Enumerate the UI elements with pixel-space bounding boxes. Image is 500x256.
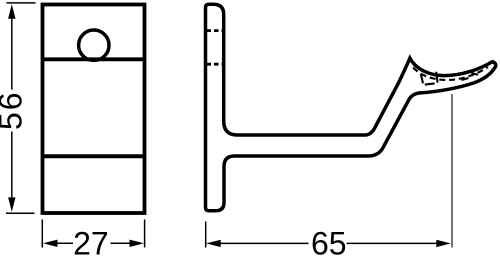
svg-text:56: 56 [0,90,29,130]
hidden hole dashes in saddle right [462,78,469,80]
dimension 27 line right segment [111,242,133,244]
dimension 56 line lower segment [11,132,13,202]
dimension 56 extension tick top [7,2,36,4]
dimension 27 extension line right [144,220,146,248]
dimension 27 arrow left [43,240,58,247]
dimension 27 line left segment [55,242,73,244]
svg-text:65: 65 [311,225,347,256]
dimension 65 line left segment [218,242,309,244]
dimension 56 arrow up [8,4,15,19]
dimension 56 extension tick bottom [6,212,35,214]
dimension 27 extension line left [41,220,43,248]
hidden hole dashes in saddle left [421,74,423,84]
hidden hole dashed line upper on plate [207,29,223,32]
svg-text:27: 27 [73,225,109,256]
dimension 65 arrow left [206,240,221,247]
dimension 65 line right segment [347,242,440,244]
front view divider line upper [43,57,145,61]
dimension 56 line upper segment [11,15,13,90]
dimension 27 arrow right [130,240,145,247]
front view divider line lower [43,154,145,158]
front view screw hole circle [79,30,109,60]
dimension 56 arrow down [8,197,15,212]
hidden hole dashed line lower on plate [207,63,223,66]
front view rectangle [43,5,145,214]
side view bracket outline [206,4,496,211]
dimension 65 extension line right tall [451,94,453,248]
dimension 65 extension line left [205,222,207,248]
hidden seat dashed curve in saddle [413,67,488,80]
dimension 65 arrow right [436,240,451,247]
